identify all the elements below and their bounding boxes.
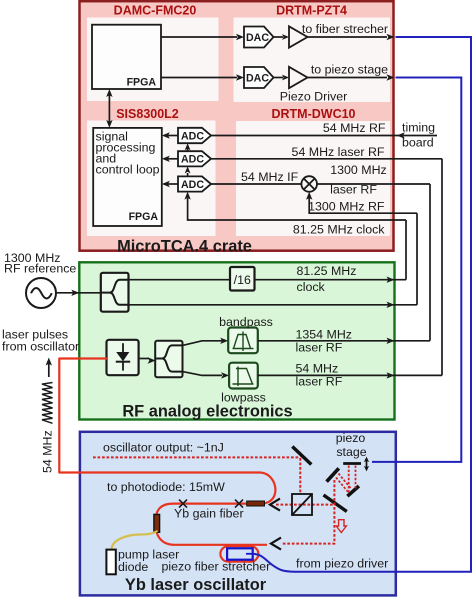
wire /16 to riser (81.25 MHz clock)	[255, 279, 407, 281]
splice X 1	[179, 500, 187, 508]
FPGA U1 box	[92, 25, 161, 89]
svg-text:54 MHz laser RF: 54 MHz laser RF	[292, 145, 385, 159]
MicroTCA.4 crate box	[80, 1, 394, 251]
beamsplitter cube	[292, 494, 312, 515]
pump laser diode	[106, 550, 115, 575]
stretcher piezo block (blue)	[227, 548, 253, 559]
wire FPGA to DAC2	[161, 77, 237, 79]
svg-text:1354 MHz: 1354 MHz	[296, 328, 352, 342]
svg-text:SIS8300L2: SIS8300L2	[116, 107, 179, 121]
bandpass filter	[228, 328, 258, 354]
wire ADC3 to FPGA2	[168, 183, 178, 185]
blue wire to fiber stretcher (from DRTM-PZT4)	[253, 37, 471, 572]
svg-text:1300 MHz RF: 1300 MHz RF	[308, 200, 385, 214]
beam oscillator output (dashed)	[93, 456, 300, 458]
svg-text:DAC: DAC	[246, 73, 269, 85]
wire FPGA to DAC1	[161, 36, 237, 38]
svg-text:oscillator output: ~1nJ: oscillator output: ~1nJ	[103, 441, 224, 455]
svg-text:timing: timing	[402, 121, 435, 135]
mirror A	[327, 468, 339, 481]
wire ADC1 to FPGA2	[168, 135, 178, 137]
svg-text:MicroTCA.4 crate: MicroTCA.4 crate	[117, 237, 252, 255]
Yb laser oscillator box	[80, 432, 396, 596]
amplifier piezo driver 1	[289, 26, 308, 47]
lowpass filter	[229, 363, 258, 389]
beams mirror A to mirror B (dashed pair)	[336, 478, 349, 493]
riser 54 MHz laser RF	[441, 159, 443, 376]
DAC 1	[244, 27, 274, 48]
arrowhead into gain fiber	[270, 499, 280, 511]
pulse train comb (54 MHz laser pulses)	[42, 383, 53, 424]
main beam to fiber (dashed)	[276, 504, 335, 506]
DAC 2	[244, 67, 274, 88]
svg-text:RF analog electronics: RF analog electronics	[122, 403, 292, 421]
beam down from mirror C (dashed)	[281, 480, 334, 544]
pulse train arrow up	[48, 363, 50, 377]
piezo stage mirror bar	[343, 462, 361, 465]
svg-text:Piezo Driver: Piezo Driver	[280, 90, 347, 104]
riser 81.25 MHz clock	[405, 220, 407, 280]
svg-text:to photodiode: 15mW: to photodiode: 15mW	[107, 480, 225, 494]
mixer	[301, 176, 317, 192]
svg-text:RF reference: RF reference	[4, 262, 76, 276]
svg-text:DRTM-PZT4: DRTM-PZT4	[276, 4, 347, 18]
wire splitter1 top to /16	[127, 279, 230, 281]
splitter S2	[155, 341, 182, 378]
svg-text:DRTM-DWC10: DRTM-DWC10	[271, 107, 355, 121]
beams piezo bar to mirror B (dashed pair)	[348, 466, 350, 494]
wire amp1 to crate edge (to fiber strecher)	[308, 36, 388, 38]
svg-text:stage: stage	[336, 445, 366, 459]
svg-text:lowpass: lowpass	[221, 391, 266, 405]
FPGA U2 box (signal processing)	[93, 128, 162, 226]
beam M1 down to cube (dashed)	[299, 458, 301, 494]
svg-text:to fiber strecher: to fiber strecher	[302, 22, 388, 36]
wire photodiode to splitter2	[139, 358, 149, 360]
svg-text:laser RF: laser RF	[296, 375, 343, 389]
collimator (top port)	[247, 501, 265, 506]
svg-text:/16: /16	[234, 273, 251, 287]
svg-text:from oscillator: from oscillator	[2, 340, 79, 354]
pump fiber (yellow)	[112, 531, 158, 550]
svg-text:bandpass: bandpass	[219, 315, 273, 329]
svg-text:piezo: piezo	[336, 431, 366, 445]
wire FPGA to SIS8300L2 (bidirectional)	[108, 95, 110, 122]
hollow red arrow down	[336, 520, 346, 533]
panel DRTM-PZT4	[234, 18, 391, 103]
svg-text:DAMC-FMC20: DAMC-FMC20	[114, 4, 197, 18]
piezo fiber stretcher oval	[220, 546, 258, 561]
svg-text:piezo fiber stretcher: piezo fiber stretcher	[162, 560, 271, 574]
wire splitter2 to lowpass	[183, 372, 223, 376]
svg-text:1300 MHz: 1300 MHz	[330, 163, 386, 177]
svg-text:FPGA: FPGA	[127, 77, 157, 89]
svg-text:to piezo stage: to piezo stage	[311, 63, 388, 77]
svg-text:81.25 MHz clock: 81.25 MHz clock	[293, 223, 385, 237]
splitter S1	[101, 273, 129, 312]
svg-text:board: board	[402, 136, 434, 150]
wire 54 MHz laser RF to ADC2	[211, 158, 442, 160]
svg-text:Yb laser oscillator: Yb laser oscillator	[125, 576, 267, 594]
riser 1354 MHz laser RF	[429, 184, 431, 341]
mirror M1	[292, 447, 311, 465]
divider /16	[230, 267, 255, 291]
svg-text:DAC: DAC	[246, 32, 269, 44]
piezo stage motion arrow	[366, 460, 368, 469]
svg-text:ADC: ADC	[181, 130, 204, 142]
wire source to splitter1	[56, 292, 102, 294]
svg-text:54 MHz IF: 54 MHz IF	[241, 170, 299, 184]
panel DRTM-DWC10	[236, 121, 390, 236]
wire splitter1 bottom to riser (1300 MHz)	[127, 304, 417, 306]
svg-text:ADC: ADC	[181, 179, 204, 191]
svg-text:FPGA: FPGA	[129, 211, 159, 223]
arrowhead into stretcher fiber	[271, 538, 281, 550]
panel DAMC-FMC20	[87, 18, 219, 102]
wire 1300 MHz RF into mixer bottom	[309, 198, 417, 213]
svg-text:laser RF: laser RF	[296, 341, 343, 355]
svg-text:from piezo driver: from piezo driver	[296, 557, 388, 571]
RF analog electronics box	[79, 262, 394, 419]
ADC 1	[178, 128, 211, 143]
clock chain arrow ADC3 to ADC2	[187, 173, 189, 176]
panel SIS8300L2	[87, 121, 216, 237]
wire bandpass to riser (1354 MHz laser RF)	[258, 340, 430, 342]
wire mixer to ADC3 (54 MHz IF)	[211, 183, 302, 185]
splice X 2	[235, 500, 243, 508]
ADC 3	[178, 176, 211, 191]
mirror C	[324, 495, 347, 512]
wire mixer to riser (1300 MHz laser RF)	[317, 183, 430, 185]
svg-text:laser RF: laser RF	[330, 183, 377, 197]
wire 81.25 MHz clock into ADC3 (from riser)	[188, 198, 406, 220]
wire 54 MHz RF from timing board to ADC1	[211, 135, 437, 137]
photodiode box	[107, 340, 139, 375]
svg-text:54 MHz RF: 54 MHz RF	[323, 121, 386, 135]
clock chain arrow ADC2 to ADC1	[187, 148, 189, 151]
wire amp2 to crate edge (to piezo stage)	[308, 77, 388, 79]
amplifier piezo driver 2	[289, 67, 308, 88]
svg-text:Yb gain fiber: Yb gain fiber	[174, 507, 244, 521]
svg-text:54 MHz: 54 MHz	[296, 362, 339, 376]
wire lowpass to riser (54 MHz laser RF)	[258, 374, 442, 376]
wire DAC2 to amp2	[274, 77, 284, 79]
blue wire to piezo stage (from DRTM-PZT4)	[372, 78, 461, 462]
svg-text:clock: clock	[297, 280, 326, 294]
red fiber: oscillator to photodiode	[59, 359, 275, 504]
svg-text:81.25 MHz: 81.25 MHz	[297, 264, 357, 278]
svg-text:diode: diode	[118, 560, 148, 574]
svg-text:54 MHz: 54 MHz	[41, 430, 55, 473]
riser 1300 MHz	[416, 213, 418, 305]
red fiber loop (Yb gain fiber)	[155, 504, 267, 545]
mirror B	[347, 486, 359, 496]
wire ADC2 to FPGA2	[168, 158, 178, 160]
RF source (sine generator)	[26, 278, 56, 308]
WDM pump combiner	[154, 514, 160, 532]
wire splitter2 to bandpass	[183, 341, 223, 346]
ADC 2	[178, 151, 211, 166]
svg-text:ADC: ADC	[181, 154, 204, 166]
wire DAC1 to amp1	[274, 36, 284, 38]
svg-text:control loop: control loop	[96, 163, 160, 177]
